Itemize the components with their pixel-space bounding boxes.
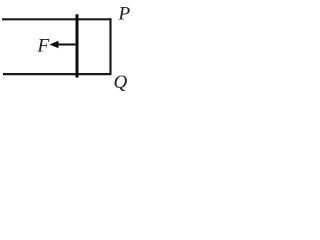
top rail P xyxy=(2,18,111,20)
svg-text:Q: Q xyxy=(114,72,128,93)
conducting rod xyxy=(76,14,79,77)
force arrow head xyxy=(50,41,59,48)
right closing wire xyxy=(109,18,111,75)
svg-text:P: P xyxy=(118,4,131,25)
svg-text:F: F xyxy=(37,36,50,57)
bottom rail Q xyxy=(3,73,111,75)
force arrow shaft xyxy=(57,44,77,46)
